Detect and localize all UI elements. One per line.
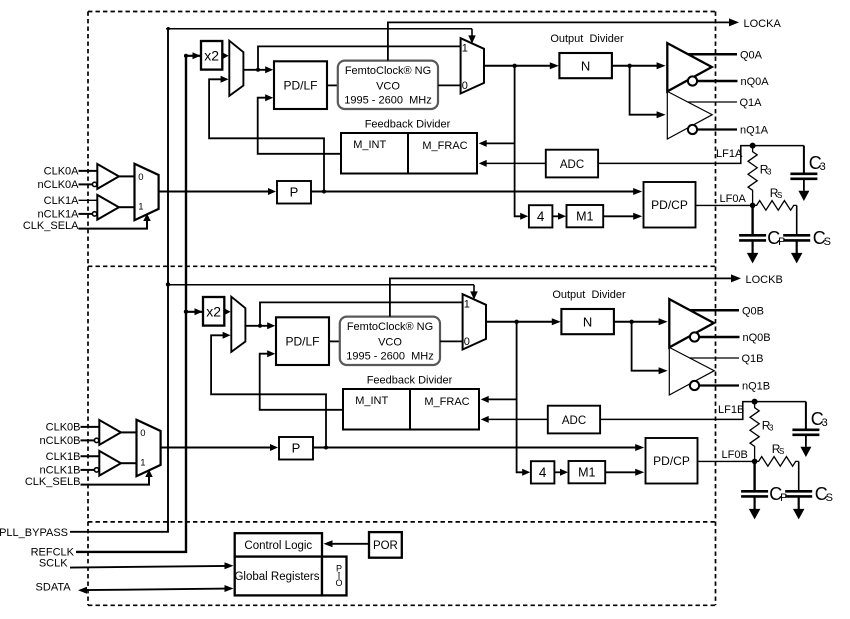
wire ADC to M_FRAC channel A — [479, 160, 546, 167]
divide-by-4 block (channel B) — [531, 461, 555, 483]
svg-text:nQ0B: nQ0B — [743, 332, 771, 344]
svg-text:Global Registers: Global Registers — [234, 571, 319, 583]
svg-text:VCO: VCO — [378, 336, 402, 348]
wire 4 to M1 channel A — [552, 213, 566, 220]
svg-text:FemtoClock® NG: FemtoClock® NG — [347, 321, 433, 333]
svg-text:CLK_SELB: CLK_SELB — [25, 476, 81, 488]
svg-text:nCLK1A: nCLK1A — [38, 208, 80, 220]
svg-text:POR: POR — [373, 540, 398, 552]
svg-text:PD/CP: PD/CP — [651, 198, 688, 212]
svg-text:CLK1B: CLK1B — [46, 451, 81, 463]
wire feedback to M_FRAC channel B — [481, 396, 517, 403]
frequency doubler x2 (channel A) — [201, 41, 222, 70]
svg-text:1: 1 — [462, 43, 468, 55]
svg-text:S: S — [779, 447, 784, 456]
wire x2 output channel B — [224, 308, 231, 315]
wire CLK_SELA select — [79, 214, 151, 229]
output divider N (channel B) — [561, 309, 614, 334]
wire bypass tap to output mux input 1 channel B — [260, 302, 463, 325]
svg-text:Q0A: Q0A — [740, 50, 763, 62]
wire buffer1 to input mux channel B — [121, 462, 137, 464]
svg-text:PD/LF: PD/LF — [285, 335, 319, 349]
svg-text:P: P — [778, 236, 785, 248]
wire output nQ1A — [697, 128, 737, 130]
wire x2 output channel A — [222, 52, 229, 59]
svg-text:N: N — [581, 58, 590, 73]
PIO block — [322, 557, 347, 596]
svg-text:0: 0 — [140, 428, 145, 439]
wire input mux to P divider channel A — [159, 188, 276, 195]
svg-text:nQ1B: nQ1B — [742, 381, 770, 393]
svg-text:VCO: VCO — [376, 80, 400, 92]
ADC U-ADCA — [546, 150, 598, 178]
node PLL_BYPASS branch to channel B — [166, 282, 170, 286]
wire output Q0A — [688, 53, 737, 56]
svg-text:CLK1A: CLK1A — [44, 195, 80, 207]
wire bypass tap to output mux input 1 channel A — [258, 46, 461, 69]
wire PD/LF to VCO channel B — [329, 340, 340, 342]
svg-text:Q1A: Q1A — [740, 97, 763, 109]
wire direct reference path channel B — [211, 332, 326, 448]
svg-text:LF1A: LF1A — [716, 148, 743, 160]
phase detector / loop filter PD/LF (channel A) — [274, 61, 327, 109]
svg-text:S: S — [826, 492, 833, 504]
svg-text:M_INT: M_INT — [353, 139, 386, 151]
input divider P (channel B) — [279, 437, 313, 460]
divider M1 (channel B) — [569, 461, 606, 483]
output buffer Q0B/nQ0B — [669, 299, 714, 347]
input buffer CLK0B — [99, 420, 121, 445]
wire CLK1B — [81, 455, 100, 457]
svg-text:LF0B: LF0B — [722, 449, 748, 461]
inversion bubble nQ0B — [690, 332, 699, 341]
PLL bypass output mux channel A — [461, 38, 484, 93]
svg-text:SCLK: SCLK — [39, 557, 68, 569]
wire VCO feedback net channel A — [515, 66, 521, 217]
input clock mux channel A — [135, 164, 159, 220]
POR block — [369, 532, 402, 558]
wire mux output to N divider channel B — [486, 318, 561, 325]
wire input mux to P divider channel B — [161, 444, 278, 451]
svg-text:1995 - 2600 MHz: 1995 - 2600 MHz — [346, 351, 433, 363]
svg-text:LF1B: LF1B — [718, 404, 744, 416]
divide-by-4 block (channel A) — [529, 205, 553, 227]
wire into divide-by-4 channel A — [520, 213, 528, 220]
output divider N (channel A) — [559, 53, 612, 78]
wire VCO feedback net channel B — [517, 322, 523, 473]
svg-text:P: P — [290, 185, 299, 200]
svg-text:nCLK0B: nCLK0B — [40, 435, 81, 447]
PLL bypass output mux channel B — [463, 294, 486, 349]
svg-text:S: S — [824, 236, 831, 248]
svg-text:3: 3 — [820, 161, 826, 173]
wire mux output to N divider channel A — [484, 62, 559, 69]
wire output nQ0B — [699, 336, 739, 339]
resistor RS (channel A) — [753, 201, 797, 211]
wire buffer0 to input mux channel A — [119, 175, 135, 177]
wire SDATA bidirectional — [78, 585, 234, 594]
wire REFCLK to doubler channel A — [184, 52, 221, 59]
svg-text:P: P — [292, 441, 301, 456]
inversion bubble nCLK1B — [94, 468, 98, 472]
wire ADC to LF1A pin — [598, 146, 804, 164]
svg-text:Feedback Divider: Feedback Divider — [367, 375, 453, 387]
wire REFCLK to doubler channel B — [186, 308, 223, 315]
svg-text:ADC: ADC — [562, 415, 586, 427]
svg-text:Output Divider: Output Divider — [550, 33, 624, 45]
wire VCO to output mux input 0 channel B — [440, 340, 463, 342]
wire buffer1 to input mux channel A — [119, 206, 135, 208]
wire feedback to M_FRAC channel A — [479, 140, 515, 147]
svg-text:Control Logic: Control Logic — [244, 540, 312, 552]
svg-text:Q0B: Q0B — [742, 306, 764, 318]
svg-text:CLK0A: CLK0A — [44, 165, 80, 177]
capacitor CP (channel A) — [739, 205, 766, 253]
resistor R3 (channel A) — [748, 146, 757, 206]
dashed divider between PLL A and PLL B — [88, 265, 716, 267]
wire PLL_BYPASS rail — [70, 29, 168, 532]
ground below C3 channel B — [800, 447, 811, 457]
wire ADC to M_FRAC channel B — [481, 416, 548, 423]
wire lock status LOCKB — [390, 274, 741, 316]
reference mux channel B — [231, 297, 245, 352]
capacitor C3 (channel B) — [792, 402, 819, 447]
wire N to output buffers channel B — [614, 318, 668, 325]
wire CLK1A — [79, 199, 98, 201]
wire CLK0A — [79, 170, 98, 172]
wire feedback into PD/LF channel A — [258, 94, 341, 154]
reference mux channel A — [229, 41, 243, 96]
wire M1 to PD/CP channel A — [603, 213, 642, 220]
capacitor C3 (channel A) — [790, 146, 817, 191]
svg-text:M_INT: M_INT — [355, 395, 388, 407]
ground below CP channel A — [747, 253, 759, 264]
inversion bubble nQ1A — [688, 125, 697, 134]
svg-text:LOCKA: LOCKA — [744, 18, 782, 30]
inversion bubble nCLK0B — [94, 438, 98, 442]
wire direct reference path channel A — [209, 76, 324, 192]
capacitor CP (channel B) — [741, 461, 768, 509]
node REFCLK branch to channel B — [184, 310, 188, 314]
inversion bubble nQ0A — [688, 76, 697, 85]
wire P to PD/CP channel A — [311, 188, 642, 195]
capacitor CS (channel B) — [785, 461, 812, 509]
wire M1 to PD/CP channel B — [605, 469, 644, 476]
wire reference into PD/LF channel A — [243, 66, 273, 73]
ground below CS channel B — [793, 509, 805, 520]
svg-text:0: 0 — [462, 80, 468, 92]
svg-text:PLL_BYPASS: PLL_BYPASS — [0, 527, 68, 539]
wire reference into PD/LF channel B — [245, 322, 275, 329]
wire into divide-by-4 channel B — [522, 469, 530, 476]
chip boundary dashed border — [88, 12, 716, 606]
svg-text:1: 1 — [464, 299, 470, 311]
wire REFCLK rail — [76, 56, 186, 552]
svg-text:0: 0 — [464, 336, 470, 348]
wire VCO to output mux input 0 channel A — [438, 84, 461, 86]
feedback divider M_INT (channel A) — [341, 133, 477, 174]
node REFCLK top corner — [184, 54, 188, 58]
wire CLK0B — [81, 426, 100, 428]
divider M1 (channel A) — [567, 205, 604, 227]
inversion bubble nCLK1A — [92, 212, 96, 216]
wire SCLK — [70, 562, 234, 569]
wire 4 to M1 channel B — [554, 469, 568, 476]
input buffer CLK1B — [99, 451, 121, 476]
wire nCLK1A — [79, 213, 93, 215]
wire ADC to LF1B pin — [600, 402, 806, 420]
wire feedback into PD/LF channel B — [260, 350, 343, 410]
input buffer CLK0A — [97, 164, 119, 189]
svg-text:0: 0 — [138, 172, 143, 183]
global registers block — [234, 557, 322, 596]
input buffer CLK1A — [97, 195, 119, 220]
resistor R3 (channel B) — [750, 402, 759, 462]
wire output Q0B — [690, 309, 739, 312]
wire N to output buffers channel A — [612, 62, 666, 69]
wire output nQ0A — [697, 80, 737, 83]
svg-text:x2: x2 — [206, 304, 221, 320]
svg-text:FemtoClock® NG: FemtoClock® NG — [345, 65, 431, 77]
wire PD/LF to VCO channel A — [327, 84, 338, 86]
svg-text:SDATA: SDATA — [36, 582, 72, 594]
svg-text:M1: M1 — [576, 210, 593, 224]
wire CLK_SELB select — [81, 470, 153, 485]
VCO U-channel A FemtoClock NG 1995-2600 MHz — [338, 61, 438, 109]
inversion bubble nQ1B — [690, 381, 699, 390]
wire output nQ1B — [699, 384, 739, 386]
output buffer Q1B/nQ1B — [669, 347, 714, 395]
node LF1A junction — [750, 143, 756, 149]
wire branch to second buffer channel B — [632, 322, 668, 374]
phase detector / loop filter PD/LF (channel B) — [276, 317, 329, 365]
wire output Q1B — [690, 357, 739, 359]
wire PLL_BYPASS select net channel A — [166, 29, 476, 44]
capacitor CS (channel A) — [783, 205, 810, 253]
svg-text:CLK0B: CLK0B — [46, 421, 81, 433]
inversion bubble nCLK0A — [92, 182, 96, 186]
svg-text:4: 4 — [537, 209, 545, 224]
ground below C3 channel A — [798, 191, 809, 201]
wire P to PD/CP channel B — [313, 444, 644, 451]
svg-text:O: O — [335, 578, 342, 588]
node LF0B junction — [752, 459, 758, 465]
svg-text:ADC: ADC — [560, 159, 584, 171]
svg-text:4: 4 — [539, 465, 547, 480]
VCO U-channel B FemtoClock NG 1995-2600 MHz — [340, 317, 440, 365]
svg-text:P: P — [780, 492, 787, 504]
wire nCLK0A — [79, 183, 93, 185]
wire nCLK1B — [81, 469, 95, 471]
ground below CP channel B — [749, 509, 761, 520]
node LF0A junction — [750, 203, 756, 209]
resistor RS (channel B) — [755, 457, 799, 467]
wire PD/CP output to LF0B — [698, 460, 755, 462]
node PLL_BYPASS top corner — [167, 27, 170, 30]
svg-text:1995 - 2600 MHz: 1995 - 2600 MHz — [344, 95, 431, 107]
svg-text:x2: x2 — [204, 48, 219, 64]
dashed divider between PLL B and control block — [88, 521, 716, 523]
wire buffer0 to input mux channel B — [121, 431, 137, 433]
svg-text:PD/LF: PD/LF — [283, 79, 317, 93]
phase detector / charge pump PD/CP (channel A) — [644, 182, 696, 228]
wire PD/CP output to LF0A — [696, 204, 753, 206]
output buffer Q0A/nQ0A — [667, 43, 712, 91]
svg-text:1: 1 — [138, 201, 143, 212]
svg-text:1: 1 — [140, 457, 145, 468]
svg-text:3: 3 — [822, 417, 828, 429]
wire POR to control logic — [324, 540, 370, 547]
svg-text:CLK_SELA: CLK_SELA — [23, 220, 79, 232]
phase detector / charge pump PD/CP (channel B) — [646, 438, 698, 484]
control logic block — [235, 533, 322, 556]
ADC U-ADCB — [548, 406, 600, 434]
wire output Q1A — [688, 101, 737, 103]
svg-text:nQ0A: nQ0A — [741, 76, 770, 88]
svg-text:M_FRAC: M_FRAC — [422, 140, 467, 152]
svg-text:M1: M1 — [578, 466, 595, 480]
feedback divider M_INT (channel B) — [343, 389, 479, 430]
svg-text:N: N — [583, 314, 592, 329]
svg-text:nCLK1B: nCLK1B — [40, 464, 81, 476]
output buffer Q1A/nQ1A — [667, 91, 712, 139]
svg-text:Feedback Divider: Feedback Divider — [365, 119, 451, 131]
ground below CS channel A — [791, 253, 803, 264]
svg-text:S: S — [777, 191, 782, 200]
wire branch to second buffer channel A — [630, 66, 666, 118]
wire nCLK0B — [81, 439, 95, 441]
svg-text:LOCKB: LOCKB — [746, 274, 783, 286]
frequency doubler x2 (channel B) — [203, 297, 224, 326]
svg-text:Q1B: Q1B — [742, 353, 764, 365]
svg-text:LF0A: LF0A — [720, 193, 747, 205]
svg-text:nCLK0A: nCLK0A — [38, 179, 80, 191]
svg-text:nQ1A: nQ1A — [740, 125, 769, 137]
wire lock status LOCKA — [388, 18, 739, 60]
svg-text:3: 3 — [769, 424, 774, 433]
svg-text:3: 3 — [767, 168, 772, 177]
input clock mux channel B — [137, 420, 161, 476]
node LF1B junction — [752, 399, 758, 405]
wire PLL_BYPASS select net channel B — [168, 285, 478, 300]
input divider P (channel A) — [277, 181, 311, 204]
svg-text:PD/CP: PD/CP — [653, 454, 690, 468]
svg-text:M_FRAC: M_FRAC — [424, 396, 469, 408]
svg-text:Output Divider: Output Divider — [552, 289, 626, 301]
